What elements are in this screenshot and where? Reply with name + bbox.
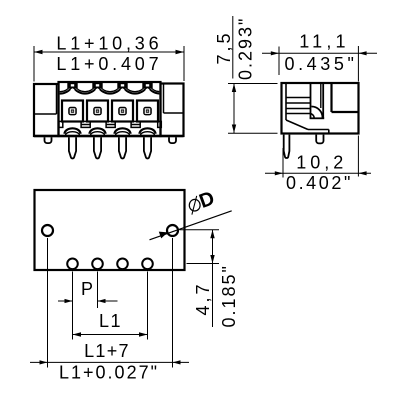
svg-text:L1: L1 [99,311,122,331]
svg-text:7,5: 7,5 [214,30,234,64]
svg-text:L1+10,36: L1+10,36 [56,34,162,54]
svg-text:0.402": 0.402" [286,173,353,193]
svg-text:0.293": 0.293" [236,17,256,80]
svg-text:10,2: 10,2 [296,153,347,173]
svg-text:P: P [81,279,93,299]
svg-text:11,1: 11,1 [299,32,350,52]
svg-text:L1+0.407: L1+0.407 [56,54,162,74]
svg-text:0.185": 0.185" [219,264,239,327]
svg-text:L1+7: L1+7 [84,341,130,361]
svg-text:0.435": 0.435" [284,54,357,74]
svg-text:4,7: 4,7 [193,281,213,315]
svg-text:L1+0.027": L1+0.027" [59,363,159,383]
